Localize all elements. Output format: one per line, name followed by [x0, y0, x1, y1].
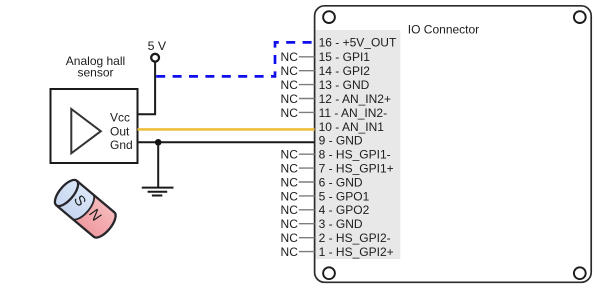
svg-text:NC: NC [281, 231, 299, 245]
svg-text:6 - GND: 6 - GND [319, 175, 363, 189]
svg-text:NC: NC [281, 64, 299, 78]
svg-text:NC: NC [281, 78, 299, 92]
svg-text:5 V: 5 V [148, 39, 167, 53]
svg-text:NC: NC [281, 175, 299, 189]
pin 6 NC stub [299, 181, 315, 183]
pin 5 NC stub [299, 195, 315, 197]
svg-text:Vcc: Vcc [110, 111, 130, 125]
magnet N half [72, 194, 119, 241]
svg-text:9 - GND: 9 - GND [319, 134, 363, 148]
pin 8 NC stub [299, 153, 315, 155]
magnet pole boundary [72, 194, 98, 223]
mounting hole bottom-left [323, 267, 335, 279]
5 V supply terminal [151, 54, 159, 62]
pin 11 NC stub [299, 111, 315, 113]
IO connector body J1 [315, 6, 592, 283]
svg-text:NC: NC [281, 50, 299, 64]
mounting hole bottom-right [574, 267, 586, 279]
analog signal wire Out to pin 10 (AN_IN1) [138, 128, 315, 131]
magnet S half [51, 176, 98, 223]
svg-text:15 - GPI1: 15 - GPI1 [319, 50, 371, 64]
svg-text:2 - HS_GPI2-: 2 - HS_GPI2- [319, 231, 391, 245]
mounting hole top-right [574, 11, 586, 23]
svg-text:4 - GPO2: 4 - GPO2 [319, 203, 370, 217]
magnet (S/N cylinder) [51, 176, 120, 241]
svg-text:Out: Out [110, 124, 130, 138]
svg-text:11 - AN_IN2-: 11 - AN_IN2- [319, 106, 387, 120]
svg-text:14 - GPI2: 14 - GPI2 [319, 64, 371, 78]
svg-text:NC: NC [281, 162, 299, 176]
magnet end cap rim [51, 176, 82, 210]
hall sensor box U1 [51, 89, 138, 163]
svg-text:16 - +5V_OUT: 16 - +5V_OUT [319, 36, 397, 50]
svg-text:NC: NC [281, 203, 299, 217]
svg-text:3 - GND: 3 - GND [319, 217, 363, 231]
svg-text:1 - HS_GPI2+: 1 - HS_GPI2+ [319, 245, 394, 259]
pin 12 NC stub [299, 98, 315, 100]
svg-text:NC: NC [281, 245, 299, 259]
op-amp triangle symbol [71, 109, 101, 153]
dashed wire 5V to pin 16 (+5V_OUT) [156, 42, 313, 76]
mounting hole top-left [323, 11, 335, 23]
pin 1 NC stub [299, 251, 315, 253]
ground symbol [142, 188, 174, 196]
pin 7 NC stub [299, 167, 315, 169]
magnet outline [56, 181, 119, 242]
pin 4 NC stub [299, 209, 315, 211]
svg-text:NC: NC [281, 189, 299, 203]
pin 3 NC stub [299, 223, 315, 225]
ground wire Gnd to pin 9 (GND) [138, 141, 315, 143]
svg-text:NC: NC [281, 217, 299, 231]
svg-text:7 - HS_GPI1+: 7 - HS_GPI1+ [319, 162, 394, 176]
pin 15 NC stub [299, 56, 315, 58]
pin 2 NC stub [299, 237, 315, 239]
svg-text:12 - AN_IN2+: 12 - AN_IN2+ [319, 92, 391, 106]
svg-text:8 - HS_GPI1-: 8 - HS_GPI1- [319, 148, 391, 162]
svg-text:NC: NC [281, 106, 299, 120]
svg-text:10 - AN_IN1: 10 - AN_IN1 [319, 120, 385, 134]
svg-text:13 - GND: 13 - GND [319, 78, 370, 92]
junction dot [155, 139, 162, 146]
wire Vcc to 5V [138, 62, 156, 115]
pin field strip [316, 30, 401, 259]
pin 14 NC stub [299, 70, 315, 72]
svg-text:5 - GPO1: 5 - GPO1 [319, 189, 370, 203]
wire junction to ground symbol [157, 142, 159, 187]
svg-text:IO Connector: IO Connector [408, 23, 479, 37]
svg-text:NC: NC [281, 148, 299, 162]
svg-text:Gnd: Gnd [110, 138, 133, 152]
svg-text:NC: NC [281, 92, 299, 106]
pin 13 NC stub [299, 84, 315, 86]
svg-text:sensor: sensor [77, 66, 113, 80]
